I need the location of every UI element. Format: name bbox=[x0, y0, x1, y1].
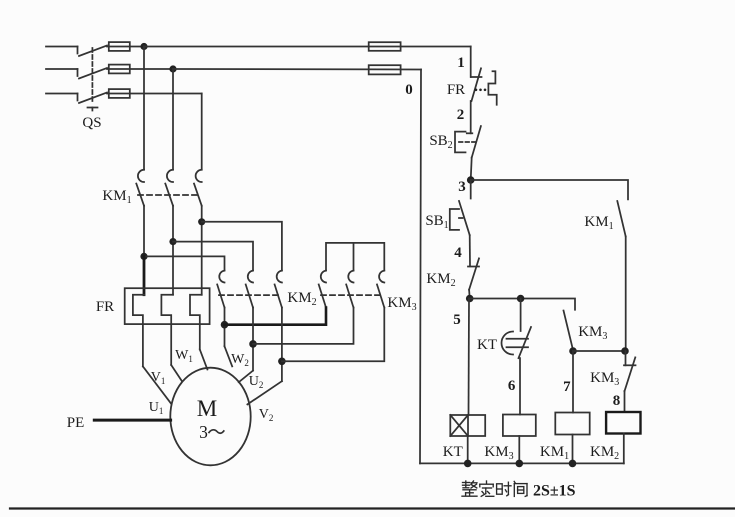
svg-text:SB2: SB2 bbox=[429, 133, 452, 151]
SB2 actuator bracket bbox=[455, 132, 466, 153]
KM2 linkage dashed bbox=[219, 294, 278, 296]
svg-text:0: 0 bbox=[405, 82, 413, 98]
wire to node 3 bbox=[471, 158, 472, 180]
contactor contact KM3 (NC) bbox=[624, 351, 636, 391]
svg-text:SB1: SB1 bbox=[425, 213, 448, 231]
wire U2 slant to motor bbox=[239, 371, 253, 383]
wire V2 slant to motor bbox=[247, 381, 282, 404]
contactor contact KM1 (NO self-hold) bbox=[617, 201, 625, 237]
svg-text:3: 3 bbox=[199, 422, 208, 442]
wire tap C to KM2 pole3 bbox=[202, 222, 282, 270]
svg-text:M: M bbox=[197, 396, 217, 421]
node KT branch dot bbox=[517, 295, 525, 303]
svg-text:W2: W2 bbox=[231, 352, 249, 368]
SB1 actuator bracket bbox=[450, 209, 459, 230]
KM3 star-point bus bbox=[326, 243, 384, 270]
svg-text:KM2: KM2 bbox=[426, 271, 455, 289]
bottom rule bbox=[10, 507, 735, 509]
svg-text:U2: U2 bbox=[249, 374, 264, 390]
svg-text:KT: KT bbox=[477, 337, 497, 353]
wire KT coil to bus bbox=[467, 436, 469, 463]
wire U2 vertical bbox=[252, 308, 254, 371]
contactor KM1 main pole 3 bbox=[194, 170, 202, 206]
wire KT coil branch bbox=[468, 299, 471, 416]
wire KM3 coil to bus bbox=[518, 436, 520, 463]
timer contact KT (delayed NC) stub bbox=[520, 299, 522, 332]
wire L1 to fuse bbox=[107, 46, 109, 48]
fuse FU2-1 bbox=[369, 42, 471, 51]
motor M 3~ bbox=[170, 368, 250, 466]
wire node 7 bbox=[572, 351, 574, 413]
wire tap A to KM2 pole1 bbox=[144, 256, 225, 270]
pushbutton SB1 (NO start) bbox=[459, 201, 470, 235]
svg-text:U1: U1 bbox=[149, 400, 164, 416]
fuse FU1-3 bbox=[107, 89, 202, 98]
wire control phase down to node 1 bbox=[470, 47, 472, 78]
wire KM3 pole1 to W2 (bold) bbox=[225, 308, 327, 325]
relay contact FR (NC) bbox=[471, 68, 482, 101]
wire L3 incoming bbox=[46, 93, 78, 95]
pushbutton SB2 (NC stop) bbox=[467, 126, 481, 158]
fuse FU2-2 bbox=[173, 65, 421, 74]
svg-text:5: 5 bbox=[453, 312, 461, 328]
node L2 junction dot bbox=[169, 65, 176, 72]
bus dot KT bbox=[464, 460, 472, 468]
wire W2 slant to motor bbox=[225, 346, 233, 366]
node tap C dot bbox=[198, 218, 205, 225]
wire L2 incoming bbox=[46, 68, 78, 70]
QS linkage dashed bar bbox=[91, 48, 93, 104]
wire V1 slant to motor bbox=[171, 365, 181, 381]
wire phase A bold segment into FR bbox=[143, 256, 146, 294]
FR dotted link bbox=[475, 89, 487, 92]
node KM1-branch dot bbox=[621, 347, 629, 355]
wire W1 slant to motor bbox=[200, 349, 208, 369]
wire phase A vertical bbox=[143, 47, 145, 170]
svg-text:V1: V1 bbox=[151, 370, 166, 386]
wire phase C below KM1 bbox=[201, 206, 203, 295]
wire node 6 bbox=[519, 358, 521, 414]
svg-text:KM3: KM3 bbox=[578, 324, 607, 342]
coil KM1 bbox=[555, 413, 589, 435]
node 3 dot bbox=[467, 176, 475, 184]
contactor contact KM2 (NC interlock) bbox=[468, 258, 479, 289]
svg-text:KT: KT bbox=[443, 444, 463, 460]
svg-text:KM1: KM1 bbox=[584, 214, 613, 232]
svg-text:KM1: KM1 bbox=[540, 444, 569, 462]
node W2 dot bbox=[221, 321, 229, 329]
QS handle tick bbox=[88, 108, 98, 111]
node L1 junction dot bbox=[140, 43, 147, 50]
contactor KM3 main pole 1 bbox=[319, 271, 326, 308]
svg-text:KM1: KM1 bbox=[102, 188, 131, 206]
wire node 8 bbox=[624, 391, 626, 412]
svg-text:QS: QS bbox=[82, 115, 101, 131]
svg-text:KM3: KM3 bbox=[387, 295, 416, 313]
FR heater element 3 bbox=[190, 295, 202, 350]
KM3 star-point bus middle leg bbox=[353, 243, 355, 270]
wire L1 incoming bbox=[46, 46, 78, 48]
svg-text:7: 7 bbox=[563, 379, 571, 395]
KT delay bars bbox=[507, 339, 529, 348]
FR thermal element symbol bbox=[488, 71, 496, 105]
wire L1 across top bbox=[144, 46, 369, 48]
wire node 2 bbox=[470, 101, 472, 133]
wire KM1 branch vertical bbox=[625, 237, 627, 352]
fuse FU1-2 bbox=[107, 65, 173, 74]
KT delay contact blade bbox=[519, 327, 532, 358]
contactor contact KM3 (NO) bbox=[564, 311, 574, 351]
contactor KM3 main pole 2 bbox=[346, 271, 353, 308]
contactor KM3 main pole 3 bbox=[377, 271, 384, 308]
node 7 top dot bbox=[569, 347, 577, 355]
bus dot KM1 bbox=[569, 460, 577, 468]
FR heater element 2 bbox=[161, 295, 173, 365]
wire KM3 pole3 to V2 bbox=[282, 308, 384, 362]
wire W2 vertical bbox=[224, 308, 226, 347]
FR heater element 1 bbox=[133, 295, 144, 367]
node 5 dot bbox=[466, 295, 474, 303]
wire KM1 coil to bus bbox=[572, 435, 574, 464]
svg-text:KM3: KM3 bbox=[484, 444, 513, 462]
node V2 dot bbox=[278, 358, 286, 366]
node tap B dot bbox=[169, 238, 176, 245]
hanzi jian bbox=[514, 481, 527, 496]
wire node7 link bbox=[573, 350, 626, 352]
contactor KM2 main pole 3 bbox=[275, 271, 282, 308]
wire KM3 pole2 to U2 bbox=[253, 308, 354, 344]
coil KM2 bbox=[606, 412, 640, 434]
svg-text:1: 1 bbox=[457, 55, 465, 71]
bottom bus wire bbox=[420, 462, 624, 464]
svg-text:FR: FR bbox=[96, 299, 114, 315]
caption 整定时间 2S±1S bbox=[462, 481, 576, 500]
svg-text:V2: V2 bbox=[259, 407, 274, 423]
svg-text:PE: PE bbox=[67, 415, 85, 431]
svg-text:FR: FR bbox=[447, 82, 465, 98]
wire to node 5 bbox=[468, 290, 471, 299]
wire phase C vertical bbox=[201, 94, 203, 170]
wire node 4 bbox=[469, 235, 471, 266]
wire neutral 0 down left side of control bbox=[420, 70, 421, 464]
fuse FU1-1 bbox=[109, 42, 144, 51]
contactor KM2 main pole 1 bbox=[217, 271, 224, 308]
wire tap B to KM2 pole2 bbox=[173, 242, 253, 271]
coil KT bbox=[450, 415, 485, 436]
wire node3 branch to KM1 contact bbox=[471, 180, 628, 199]
wire phase B below KM1 bbox=[172, 206, 174, 295]
SB1 actuator dash bbox=[459, 217, 464, 219]
contactor KM1 main pole 2 bbox=[165, 170, 173, 206]
KT delay semicircle bbox=[502, 332, 514, 355]
svg-text:2S±1S: 2S±1S bbox=[533, 483, 576, 500]
contactor KM2 main pole 2 bbox=[246, 271, 253, 308]
node tap A dot bbox=[140, 253, 147, 260]
KM3 linkage dashed bbox=[321, 294, 381, 296]
svg-text:2: 2 bbox=[457, 107, 465, 123]
svg-text:KM3: KM3 bbox=[590, 370, 619, 388]
svg-text:3: 3 bbox=[458, 179, 466, 195]
node U2 dot bbox=[249, 340, 257, 348]
contactor KM1 main pole 1 bbox=[136, 170, 144, 206]
bus dot KM3 bbox=[516, 460, 524, 468]
svg-text:KM2: KM2 bbox=[287, 290, 316, 308]
svg-text:8: 8 bbox=[613, 393, 621, 409]
wire node5 rail bbox=[470, 299, 575, 310]
wire phase A below KM1 bbox=[143, 206, 145, 257]
wire phase B vertical bbox=[172, 69, 174, 170]
wire KM2 coil to bus bbox=[623, 434, 625, 464]
disconnect switch QS pole 3 bbox=[78, 93, 108, 104]
coil KM3 bbox=[503, 415, 536, 437]
wire U1 slant to motor bbox=[143, 366, 171, 403]
hanzi zheng bbox=[462, 481, 477, 496]
hanzi ding bbox=[480, 481, 494, 496]
svg-text:4: 4 bbox=[454, 245, 462, 261]
svg-text:KM2: KM2 bbox=[590, 444, 619, 462]
PE wire bbox=[94, 419, 170, 422]
disconnect switch QS pole 2 bbox=[78, 68, 108, 79]
wire below node 3 bbox=[470, 180, 472, 199]
tilde of 3~ bbox=[209, 430, 224, 433]
SB2 actuator dashed link bbox=[459, 141, 477, 143]
disconnect switch QS pole 1 bbox=[78, 46, 108, 57]
KM1 linkage dashed bbox=[138, 194, 198, 196]
svg-text:6: 6 bbox=[508, 378, 516, 394]
hanzi shi bbox=[497, 482, 511, 496]
thermal relay FR box bbox=[125, 288, 210, 324]
wire V2 vertical bbox=[281, 308, 283, 382]
svg-text:W1: W1 bbox=[175, 348, 193, 364]
